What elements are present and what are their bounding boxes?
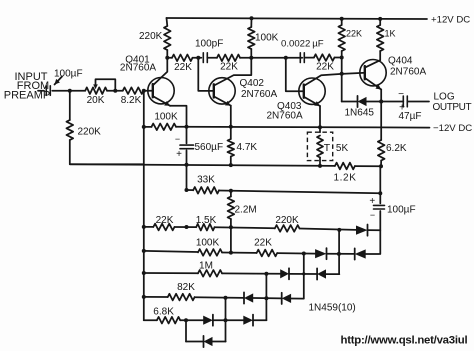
diode row L xyxy=(204,337,213,346)
node row G diode col xyxy=(337,228,341,232)
node row I left xyxy=(142,271,146,275)
node rail/1K top xyxy=(378,17,382,21)
svg-text:100K: 100K xyxy=(196,237,220,248)
wire row G seg3 xyxy=(215,227,275,228)
wire 2.2M top lead xyxy=(230,191,232,197)
wire node to 20K xyxy=(70,90,85,92)
transistor Q403 xyxy=(299,78,325,104)
capacitor 560uF xyxy=(180,144,194,146)
wire Q404 collector xyxy=(365,60,380,67)
svg-text:1M: 1M xyxy=(199,261,213,272)
svg-text:1N645: 1N645 xyxy=(345,108,375,119)
node row F 2.2M xyxy=(229,189,233,193)
wire row H seg3 xyxy=(277,252,315,255)
wire 22K col to node xyxy=(341,51,343,102)
resistor 6.8K xyxy=(157,317,180,324)
node row E 4.7K xyxy=(229,163,233,167)
wire Q402 emitter run xyxy=(230,106,232,127)
wire 4.7K bottom lead xyxy=(230,157,232,166)
wire row K seg4 xyxy=(253,319,266,321)
node row H col down xyxy=(302,252,306,256)
wire row B seg2 xyxy=(193,57,202,59)
wire pot wiper box xyxy=(96,79,116,90)
wire row H seg1 xyxy=(144,251,198,252)
capacitor 47uF xyxy=(402,96,404,107)
wire base Q401 xyxy=(144,90,153,92)
node row E thermistor xyxy=(318,164,322,168)
svg-text:33K: 33K xyxy=(197,174,215,185)
wire row L right xyxy=(213,341,226,343)
node Q401 base xyxy=(142,89,146,93)
svg-text:2N760A: 2N760A xyxy=(241,89,277,100)
wire 220K to row B xyxy=(166,50,168,58)
wire 100K top lead xyxy=(250,18,252,27)
svg-text:OUTPUT: OUTPUT xyxy=(433,102,472,113)
wire row I seg1 xyxy=(144,272,198,274)
wire row B seg3 xyxy=(207,57,217,59)
wire row B seg4 xyxy=(240,57,302,59)
wire diode row right xyxy=(407,101,429,103)
wire row J seg2 xyxy=(195,296,244,299)
node row K mid col xyxy=(224,318,228,322)
svg-text:47µF: 47µF xyxy=(399,111,422,122)
svg-text:−: − xyxy=(175,134,180,144)
wire row I seg3 xyxy=(289,273,317,275)
diode 1N645 xyxy=(358,97,367,106)
node col/base wire xyxy=(340,72,344,76)
svg-text:1.2K: 1.2K xyxy=(334,172,357,183)
node row H 2.2M col xyxy=(229,251,233,255)
wire column G-I xyxy=(338,230,340,274)
resistor 220K top xyxy=(164,26,171,50)
svg-text:220K: 220K xyxy=(139,31,163,42)
node row H left xyxy=(142,249,146,253)
node row E 560uF xyxy=(185,163,189,167)
resistor 220K input xyxy=(67,120,74,140)
svg-text:100µF: 100µF xyxy=(54,68,83,79)
node row G left xyxy=(142,225,146,229)
wire column I-K xyxy=(265,274,267,321)
resistor 22K row B third xyxy=(314,54,335,61)
wire 20K to 8.2K xyxy=(107,90,123,92)
node rail D thermistor xyxy=(318,125,322,129)
node row H col mid xyxy=(337,252,341,256)
wire 4.7K top lead xyxy=(230,127,232,139)
wire Q401 emitter xyxy=(153,96,170,106)
node row J col2 xyxy=(264,296,268,300)
node rail/22K top xyxy=(340,17,344,21)
svg-text:6.2K: 6.2K xyxy=(386,143,407,154)
thermistor dashed box xyxy=(307,132,332,160)
svg-text:100K: 100K xyxy=(255,33,279,44)
svg-text:2N760A: 2N760A xyxy=(120,63,156,74)
resistor 6.2K xyxy=(378,140,385,161)
svg-text:1.5K: 1.5K xyxy=(196,215,217,226)
wire cap to node xyxy=(52,90,70,92)
capacitor 100pF xyxy=(202,53,204,63)
wire column H-J xyxy=(303,254,305,299)
node pot right xyxy=(113,89,117,93)
wire row B seg5 xyxy=(304,57,314,59)
wire left column xyxy=(143,91,145,321)
svg-text:−: − xyxy=(398,89,404,100)
node 22K/100pF junction xyxy=(196,56,200,60)
node row B Q403 base col xyxy=(284,56,288,60)
wire Q404 emitter xyxy=(365,78,381,89)
wire Q404 emitter run xyxy=(380,90,382,141)
arrow to input cap xyxy=(55,77,63,85)
resistor 8.2K xyxy=(123,87,144,94)
wire row K seg2 xyxy=(180,319,203,321)
wire Q403 emitter run xyxy=(319,106,321,132)
svg-text:560µF: 560µF xyxy=(195,142,224,153)
wire row J seg3 xyxy=(253,297,282,299)
wire row J seg4 xyxy=(291,298,303,300)
wire 100uF top lead xyxy=(379,166,381,203)
resistor 22K row H xyxy=(257,250,278,257)
node 2.2M row G xyxy=(229,225,233,229)
svg-text:2.2M: 2.2M xyxy=(235,204,257,215)
svg-text:22K: 22K xyxy=(156,215,174,226)
resistor 22K row B first xyxy=(172,55,193,62)
node rail D 560uF xyxy=(185,125,189,129)
node row E right end xyxy=(379,164,383,168)
node row F right end xyxy=(378,191,382,195)
node rail D left xyxy=(142,125,146,129)
svg-text:22K: 22K xyxy=(220,62,238,73)
wire 560uF bottom lead xyxy=(186,150,188,190)
svg-text:0.0022 µF: 0.0022 µF xyxy=(281,38,324,49)
svg-text:82K: 82K xyxy=(177,282,195,293)
svg-text:LOG: LOG xyxy=(434,91,455,102)
wire row K seg3 xyxy=(213,319,243,321)
svg-text:220K: 220K xyxy=(78,127,102,138)
svg-text:−: − xyxy=(370,210,375,220)
svg-text:1N459(10): 1N459(10) xyxy=(309,302,356,313)
diode row H second xyxy=(355,249,366,258)
wire row B seg6 xyxy=(334,57,341,59)
resistor 1.5K xyxy=(196,224,214,231)
transistor Q401 xyxy=(148,78,174,104)
wire Q403 base column xyxy=(286,58,304,91)
wire row F seg2 xyxy=(219,191,380,194)
wire row I seg4 xyxy=(326,273,339,275)
wire Q403 collector to Q404 base xyxy=(304,73,365,86)
svg-text:+12V DC: +12V DC xyxy=(431,15,470,26)
wire row B seg1 xyxy=(167,57,172,59)
node emitter/diode row xyxy=(379,100,383,104)
svg-text:100pF: 100pF xyxy=(195,39,223,50)
node input xyxy=(68,89,72,93)
resistor 22K row B second xyxy=(217,55,240,62)
wire 2.2M bottom lead xyxy=(230,219,232,253)
svg-text:22K: 22K xyxy=(174,62,192,73)
resistor 100K row H xyxy=(198,249,222,256)
wire 22K col top lead xyxy=(341,19,343,25)
diode row K second xyxy=(243,316,253,325)
wire 1K to Q404 collector xyxy=(379,51,381,60)
wire row I seg2 xyxy=(222,272,280,274)
wire column J-L xyxy=(225,298,227,342)
resistor 82K xyxy=(168,294,195,301)
node row I crossing xyxy=(302,272,305,275)
wire 1K top lead xyxy=(379,19,381,25)
diode row H first xyxy=(315,249,326,258)
wire Q402 base column xyxy=(198,58,214,91)
node rail D 4.7K xyxy=(229,125,233,129)
resistor 1.2K xyxy=(335,163,355,170)
svg-text:http://www.qsl.net/va3iul: http://www.qsl.net/va3iul xyxy=(341,335,468,347)
wire -12V rail seg2 xyxy=(176,126,430,129)
node row J left xyxy=(142,295,146,299)
wire Q401 collector xyxy=(153,58,168,86)
wire diode row left xyxy=(342,101,358,103)
wire -12V rail seg1 xyxy=(144,126,152,128)
wire rail corner xyxy=(166,18,169,26)
svg-text:2N760A: 2N760A xyxy=(390,66,426,77)
arrow pot wiper xyxy=(93,84,98,89)
resistor 1K xyxy=(377,25,384,51)
resistor 220K row G xyxy=(275,225,300,232)
diode row G xyxy=(356,226,368,235)
wire row K seg1 xyxy=(144,319,157,321)
wire row G seg2 xyxy=(175,226,197,228)
resistor 4.7K xyxy=(228,139,235,157)
transistor Q402 xyxy=(209,78,235,104)
wire +12V rail xyxy=(167,18,428,19)
wire 100K bottom lead xyxy=(250,49,252,58)
wire thermistor bottom lead xyxy=(319,158,321,166)
node rail/100K top xyxy=(250,16,254,20)
node row J col xyxy=(224,296,228,300)
svg-text:22K: 22K xyxy=(346,28,362,38)
wire row G seg4 xyxy=(300,229,357,230)
thermistor 5K element xyxy=(317,136,323,158)
wire row L left xyxy=(186,341,204,343)
svg-text:Q404: Q404 xyxy=(388,56,413,67)
resistor 22K row G xyxy=(153,224,174,231)
wire row E right xyxy=(355,165,381,167)
wire input lead xyxy=(38,90,44,92)
svg-text:100µF: 100µF xyxy=(387,205,416,216)
wire row H seg5 xyxy=(366,253,380,255)
diode row J second xyxy=(282,294,291,303)
transistor Q404 xyxy=(360,59,386,85)
svg-text:+: + xyxy=(369,196,375,207)
wire 560uF top lead xyxy=(186,127,188,144)
wire column K-L left xyxy=(185,320,187,341)
resistor 1M xyxy=(198,270,222,277)
resistor 20K pot xyxy=(85,87,107,94)
wire Q402 collector xyxy=(214,58,252,86)
svg-text:2N760A: 2N760A xyxy=(267,111,303,122)
svg-text:22K: 22K xyxy=(254,237,272,248)
svg-text:8.2K: 8.2K xyxy=(121,95,142,106)
wire row E xyxy=(70,164,335,166)
wire row H seg4 xyxy=(327,253,355,255)
wire row J seg1 xyxy=(144,296,168,298)
svg-text:Q402: Q402 xyxy=(240,78,265,89)
svg-text:1K: 1K xyxy=(385,28,396,38)
svg-text:+: + xyxy=(176,149,182,160)
svg-text:100K: 100K xyxy=(154,112,178,123)
wire diode row mid xyxy=(367,101,404,103)
diode row K first xyxy=(203,316,213,325)
resistor 100K row D xyxy=(152,124,177,131)
node row B 100K bottom xyxy=(249,56,253,60)
node row I col down xyxy=(264,272,268,276)
node row G mid xyxy=(185,225,189,229)
wire 220K to row E xyxy=(70,140,144,164)
diode row J first xyxy=(244,293,253,302)
wire Q401 emitter run xyxy=(170,106,187,127)
capacitor 100uF xyxy=(374,204,385,206)
svg-text:22K: 22K xyxy=(316,61,334,72)
wire row G seg1 xyxy=(144,226,154,228)
svg-text:20K: 20K xyxy=(87,95,105,106)
svg-text:−12V DC: −12V DC xyxy=(433,123,472,134)
wire Q403 emitter xyxy=(304,97,320,106)
wire 6.2K bottom lead xyxy=(380,161,382,167)
node row B left xyxy=(165,56,169,60)
diode row I first xyxy=(280,269,289,278)
svg-text:4.7K: 4.7K xyxy=(237,142,258,153)
svg-text:T: T xyxy=(324,142,331,154)
capacitor 0.0022uF xyxy=(299,53,301,63)
svg-text:220K: 220K xyxy=(275,215,299,226)
wire row F seg1 xyxy=(187,189,194,191)
svg-text:6.8K: 6.8K xyxy=(153,306,174,317)
node row B right end xyxy=(340,56,344,60)
resistor 33K xyxy=(193,187,219,194)
node row K left col xyxy=(184,318,188,322)
resistor 100K column xyxy=(248,27,255,49)
wire Q402 emitter xyxy=(214,96,231,105)
resistor 22K column xyxy=(338,25,345,51)
wire 100uF bottom lead xyxy=(379,211,381,254)
wire input node down xyxy=(69,91,71,120)
diode row I second xyxy=(317,269,326,278)
wire row H seg2 xyxy=(222,252,257,254)
resistor 2.2M xyxy=(228,197,235,220)
wire row G seg5 xyxy=(368,229,381,231)
node row F left xyxy=(185,188,189,192)
svg-text:5K: 5K xyxy=(336,143,349,154)
capacitor 100uF input xyxy=(45,86,47,96)
